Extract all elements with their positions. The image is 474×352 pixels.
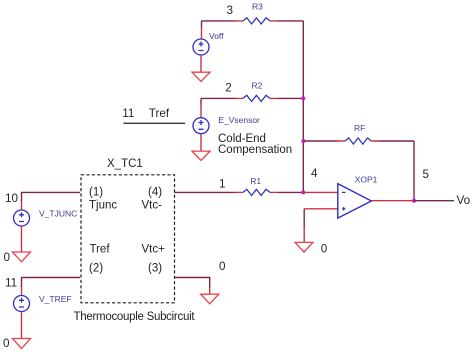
ground at op-amp plus input [295, 242, 313, 252]
ground below Voff [192, 72, 210, 81]
node 11/Tref floating wire [123, 122, 185, 124]
wire V_TJUNC pin stub bottom [21, 226, 23, 252]
svg-text:R3: R3 [252, 1, 263, 11]
svg-text:X_TC1: X_TC1 [107, 158, 143, 170]
svg-text:XOP1: XOP1 [355, 175, 378, 185]
resistor R1 [243, 189, 270, 195]
resistor R3 [243, 18, 270, 24]
resistor R2 pins [235, 97, 278, 99]
ground below V_TJUNC [13, 252, 31, 262]
svg-text:2: 2 [225, 82, 232, 95]
junction node 4 [301, 190, 305, 194]
resistor R2 [243, 95, 270, 101]
wire V_TREF pin stub bottom [21, 312, 23, 339]
svg-text:Tref: Tref [149, 107, 170, 120]
junction node 2/column [301, 96, 305, 100]
svg-text:Tjunc: Tjunc [89, 199, 117, 211]
wire pin (3) to ground [175, 278, 210, 289]
svg-text:(4): (4) [148, 186, 162, 198]
svg-text:5: 5 [423, 168, 430, 181]
wire RF right vertical [413, 141, 415, 201]
svg-text:R2: R2 [252, 80, 263, 90]
svg-text:3: 3 [227, 4, 234, 17]
RF feedback row [303, 140, 414, 142]
wire Voff pin stub bottom [200, 55, 202, 72]
svg-text:V_TJUNC: V_TJUNC [39, 209, 77, 219]
op-amp XOP1 [338, 184, 372, 219]
wire node 10 to pin (1) [22, 192, 81, 201]
svg-text:4: 4 [311, 167, 318, 180]
svg-text:Vtc+: Vtc+ [142, 243, 166, 255]
svg-text:11: 11 [5, 277, 17, 290]
svg-text:0: 0 [3, 337, 10, 350]
wire E_Vsensor pin stub top [200, 98, 202, 105]
svg-text:Tref: Tref [90, 243, 111, 255]
voltage source V_TREF [14, 296, 30, 312]
svg-text:0: 0 [4, 251, 11, 264]
wire R2 row [201, 97, 303, 99]
junction RF/column [301, 139, 305, 143]
resistor RF pins [337, 140, 379, 142]
wire op-amp plus input stub [304, 208, 338, 210]
svg-text:Voff: Voff [209, 31, 224, 41]
svg-text:(1): (1) [89, 186, 103, 198]
subcircuit box X_TC1 [81, 175, 175, 303]
wire E_Vsensor pin stub bottom [200, 134, 202, 151]
resistor RF [345, 138, 371, 144]
svg-text:1: 1 [219, 178, 226, 191]
wire op-amp minus input stub [303, 191, 338, 193]
wire node 11 to pin (2) [22, 278, 81, 288]
svg-text:0: 0 [219, 260, 226, 273]
voltage source V_TJUNC [14, 210, 30, 226]
svg-text:RF: RF [354, 123, 365, 133]
svg-text:Vo: Vo [457, 194, 471, 207]
wire Voff pin stub top [201, 21, 203, 28]
svg-text:(2): (2) [89, 262, 103, 274]
wire output to Vo [414, 200, 454, 202]
wire column x=303 from R3 down to node 4 [302, 21, 304, 193]
svg-text:E_Vsensor: E_Vsensor [218, 115, 260, 125]
svg-text:(3): (3) [148, 262, 162, 274]
junction node 5 output [412, 199, 416, 203]
svg-text:0: 0 [321, 243, 328, 256]
ground at pin (3) [201, 294, 219, 304]
svg-text:Vtc-: Vtc- [142, 199, 163, 211]
wire R1 row [175, 191, 304, 193]
svg-text:Thermocouple Subcircuit: Thermocouple Subcircuit [74, 311, 196, 323]
ground below V_TREF [13, 339, 31, 349]
svg-text:10: 10 [5, 192, 19, 205]
ground below E_Vsensor [192, 151, 210, 160]
svg-text:R1: R1 [250, 176, 261, 186]
wire R3 top row [202, 20, 304, 22]
controlled source E_Vsensor [193, 118, 209, 134]
svg-text:Compensation: Compensation [218, 144, 292, 156]
resistor R3 pins [235, 20, 278, 22]
voltage source Voff [193, 39, 209, 55]
wire to ground from plus input [303, 209, 305, 227]
resistor R1 pins [235, 191, 278, 193]
svg-text:11: 11 [122, 107, 134, 120]
svg-text:V_TREF: V_TREF [39, 294, 72, 304]
wire op-amp output stub [371, 200, 414, 202]
